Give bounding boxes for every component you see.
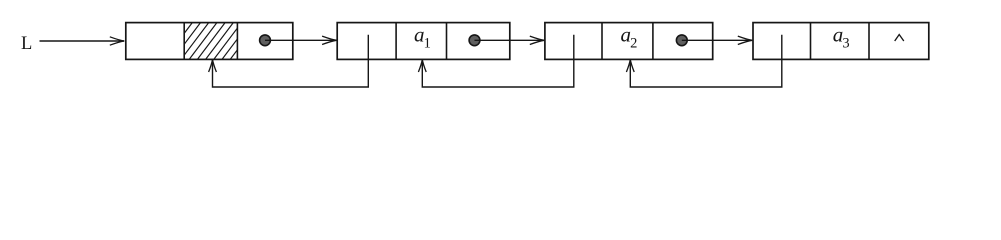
wire: next arrow node 3 to node 4 [682, 39, 752, 41]
node 1 next-pointer dot [260, 35, 271, 46]
node 4 divider 1 [810, 23, 812, 60]
wire: prior pointer node 3 to node 2 [422, 35, 574, 87]
node 2 next-pointer dot [469, 35, 480, 46]
node 3 next-pointer dot [676, 35, 687, 46]
node 4 box [753, 23, 929, 60]
svg-text:3: 3 [842, 35, 849, 51]
node 3 divider 2 [652, 23, 654, 60]
node 3 divider 1 [601, 23, 603, 60]
node 2 box [337, 23, 510, 60]
node 1 hatched data cell [148, 23, 258, 60]
wire: next arrow node 1 to node 2 [265, 39, 336, 41]
node 1 divider 1 [183, 23, 185, 60]
node 1 (head) box [126, 23, 293, 60]
node 4 divider 2 [868, 23, 870, 60]
wire: prior pointer node 4 to node 3 [630, 35, 782, 87]
node 3 box [545, 23, 713, 60]
node 2 divider 2 [446, 23, 448, 60]
svg-text:1: 1 [424, 35, 431, 51]
node 2 divider 1 [395, 23, 397, 60]
wire: next arrow node 2 to node 3 [475, 39, 545, 41]
svg-text:2: 2 [630, 35, 637, 51]
wire: arrow from L to head node [40, 40, 125, 42]
null mark in node 4 [895, 35, 904, 42]
svg-text:L: L [21, 34, 32, 54]
wire: prior pointer node 2 to node 1 [213, 35, 369, 87]
node 1 divider 2 [236, 23, 238, 60]
